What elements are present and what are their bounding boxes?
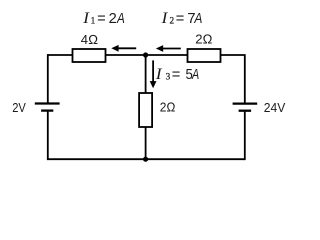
svg-text:2Ω: 2Ω bbox=[195, 32, 212, 47]
svg-text:A: A bbox=[194, 11, 203, 27]
wire top-left segment bbox=[48, 54, 73, 56]
svg-text:1: 1 bbox=[91, 15, 96, 26]
wire bottom bbox=[47, 158, 245, 160]
svg-text:=: = bbox=[176, 11, 185, 27]
resistor R2 2ohm box bbox=[188, 49, 221, 62]
wire left side upper bbox=[47, 54, 49, 103]
svg-text:2V: 2V bbox=[12, 100, 26, 115]
battery V1 long plate bbox=[35, 102, 60, 104]
svg-text:I: I bbox=[160, 10, 168, 27]
svg-text:2Ω: 2Ω bbox=[160, 100, 176, 115]
battery V2 long plate bbox=[233, 102, 258, 104]
svg-text:3: 3 bbox=[166, 72, 171, 82]
wire right side lower bbox=[244, 111, 246, 160]
battery V2 short plate bbox=[239, 110, 252, 112]
wire middle branch lower bbox=[145, 127, 147, 159]
svg-text:A: A bbox=[191, 67, 199, 83]
node junction bottom bbox=[143, 157, 148, 162]
current label I2 = 7A bbox=[160, 10, 202, 27]
wire left side lower bbox=[47, 111, 49, 160]
node junction top bbox=[143, 52, 148, 57]
current arrow I1 bbox=[111, 45, 136, 52]
svg-text:=: = bbox=[97, 11, 106, 27]
svg-text:=: = bbox=[172, 67, 181, 83]
current arrow I3 bbox=[150, 60, 157, 88]
svg-text:2: 2 bbox=[109, 11, 117, 27]
resistor R3 vertical 2ohm box bbox=[139, 93, 152, 127]
wire top-right segment bbox=[221, 55, 245, 104]
svg-text:4Ω: 4Ω bbox=[81, 32, 98, 47]
current label I1 = 2A bbox=[82, 10, 125, 27]
wire top-middle segment bbox=[106, 54, 188, 56]
svg-text:I: I bbox=[155, 66, 163, 83]
battery V1 short plate bbox=[41, 109, 53, 111]
wire middle branch upper bbox=[145, 55, 147, 93]
svg-text:24V: 24V bbox=[264, 100, 286, 115]
current arrow I2 bbox=[156, 45, 181, 52]
current label I3 = 5A bbox=[155, 66, 200, 83]
svg-text:2: 2 bbox=[170, 16, 175, 26]
resistor R1 4ohm box bbox=[73, 49, 106, 62]
svg-text:A: A bbox=[116, 11, 125, 27]
svg-text:I: I bbox=[82, 10, 90, 27]
